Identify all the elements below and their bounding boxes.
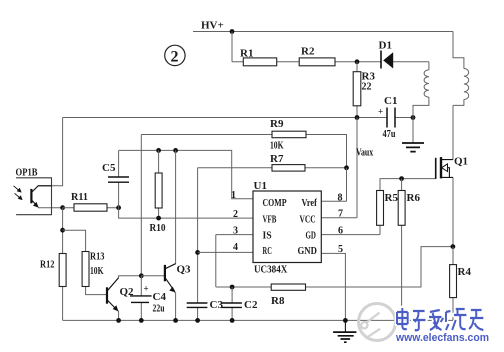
wire R8 row <box>216 247 453 287</box>
svg-text:C1: C1 <box>384 95 397 107</box>
svg-text:R9: R9 <box>270 118 284 130</box>
label R9 value 10K <box>270 140 284 152</box>
node OP1B emitter R11 junction <box>60 205 65 210</box>
pin number 8 <box>338 193 343 204</box>
pin label COMP <box>263 198 287 209</box>
wire Vref pin 8 <box>321 168 346 202</box>
svg-text:OP1B: OP1B <box>16 167 39 179</box>
node RC C3 junction <box>195 250 200 255</box>
label R2 <box>301 46 315 58</box>
svg-text:2: 2 <box>233 209 238 220</box>
pin number 2 <box>233 209 238 220</box>
transformer primary winding bottom feed <box>453 100 464 106</box>
resistor R13 <box>82 252 89 287</box>
wire R13 bottom lead to Q2 base <box>86 287 107 295</box>
label Q3 <box>177 264 192 276</box>
resistor R10 <box>155 173 162 208</box>
label R1 <box>240 48 253 60</box>
transformer aux winding coil <box>424 70 429 97</box>
pin label Vref <box>302 198 318 209</box>
wire R7 row <box>198 167 347 169</box>
transformer primary winding top feed <box>453 32 464 69</box>
wire C3 bottom lead <box>197 307 199 320</box>
resistor R4 <box>450 265 457 298</box>
transformer aux winding top feed <box>428 62 430 70</box>
wire R9 row <box>141 135 346 168</box>
svg-text:10K: 10K <box>90 265 104 277</box>
svg-text:7: 7 <box>338 209 343 220</box>
wire Vaux horizontal <box>63 117 413 119</box>
label R13 <box>90 251 105 263</box>
label R10 <box>150 222 166 234</box>
pin number 1 <box>231 190 236 201</box>
label U1 <box>254 180 267 192</box>
wire ground rail bottom <box>63 319 453 321</box>
node R10 bottom junction <box>156 216 161 221</box>
svg-text:Q2: Q2 <box>120 286 135 298</box>
node Vaux R3 junction <box>355 115 360 120</box>
label Q1 <box>454 156 468 168</box>
svg-text:1: 1 <box>231 190 236 201</box>
svg-text:6: 6 <box>338 226 343 237</box>
node C1 ground junction <box>411 115 416 120</box>
svg-text:C3: C3 <box>210 299 224 311</box>
label C1 value 47u <box>383 128 396 140</box>
resistor R9 <box>272 131 306 138</box>
node HV+ junction <box>230 29 235 34</box>
label R4 <box>458 266 472 278</box>
transistor Q1 MOSFET <box>436 157 453 179</box>
label UC384X <box>254 264 287 276</box>
svg-text:R2: R2 <box>301 46 315 58</box>
wire Q2 emitter drop <box>117 310 118 320</box>
wire HV+ drop to R1 <box>231 32 233 62</box>
wire COMP row to pin 1 <box>119 150 253 198</box>
label R7 <box>270 153 284 165</box>
diode D1 <box>381 51 393 69</box>
resistor R8 <box>271 284 305 290</box>
svg-text:COMP: COMP <box>263 198 287 209</box>
wire GND pin 5 <box>321 253 345 320</box>
svg-text:8: 8 <box>338 193 343 204</box>
wire VFB pin 2 row <box>119 208 253 218</box>
wire Q1 drain vertical <box>452 105 454 159</box>
wire Q3 collector vertical <box>165 150 175 268</box>
wire C1 ground lead <box>412 118 414 144</box>
pin label GND <box>298 246 317 257</box>
svg-text:VFB: VFB <box>263 215 277 226</box>
svg-text:+: + <box>378 107 383 117</box>
wire VCC pin 7 to Vaux <box>321 118 357 218</box>
label R11 <box>71 191 88 203</box>
capacitor C5 <box>108 177 129 182</box>
watermark text dianzifashaoyou <box>397 308 483 330</box>
label D1 <box>379 40 392 52</box>
wire R11 leads <box>63 207 119 209</box>
svg-text:22u: 22u <box>153 303 165 315</box>
label circled 2 figure number <box>165 45 185 65</box>
pin label VCC <box>300 215 316 226</box>
svg-text:Q3: Q3 <box>177 264 192 276</box>
label R5 <box>385 192 399 204</box>
wire C5 leads <box>118 150 120 207</box>
node rail C2 <box>230 318 235 323</box>
wire Q3 emitter drop <box>174 292 175 321</box>
node R10 top junction <box>156 148 161 153</box>
resistor R2 <box>299 58 335 66</box>
resistor R12 <box>59 254 66 287</box>
wire RC vertical from R7 <box>197 168 199 303</box>
wire RC pin 4 row <box>198 251 253 253</box>
wire Q1 source vertical <box>452 177 454 246</box>
node R11 C5 junction <box>116 205 121 210</box>
pin label VFB <box>263 215 277 226</box>
svg-text:Vref: Vref <box>302 198 318 209</box>
wire C4 leads <box>140 276 142 321</box>
resistor R1 <box>243 58 276 66</box>
svg-text:47u: 47u <box>383 128 396 140</box>
svg-text:R12: R12 <box>40 259 55 271</box>
svg-text:4: 4 <box>233 242 238 253</box>
wire left rail to OP1B collector <box>38 118 63 186</box>
watermark text glyph strokes <box>397 308 483 330</box>
svg-text:5: 5 <box>338 244 343 255</box>
pin number 3 <box>233 226 238 237</box>
svg-text:2: 2 <box>171 49 179 66</box>
node R4 sense junction <box>451 244 456 249</box>
node C2 IS junction <box>230 285 235 290</box>
capacitor C3 <box>187 303 208 307</box>
wire R6 bottom lead to rail <box>401 225 403 320</box>
label Q2 <box>120 286 135 298</box>
node rail C4 <box>139 318 144 323</box>
label R9 <box>270 118 284 130</box>
resistor R3 <box>353 72 361 106</box>
svg-text:R5: R5 <box>385 192 399 204</box>
watermark text www.elecfans.com <box>395 332 489 344</box>
svg-text:Q1: Q1 <box>454 156 468 168</box>
wire R3 leads <box>356 62 358 118</box>
label R3 <box>362 71 376 83</box>
svg-text:22: 22 <box>362 81 372 93</box>
pin label GD <box>306 231 316 242</box>
transistor Q3 <box>165 264 176 292</box>
wire Q2 collector to node <box>108 276 142 291</box>
label C4 value 22u <box>153 303 165 315</box>
svg-text:R10: R10 <box>150 222 166 234</box>
svg-text:R6: R6 <box>407 192 421 204</box>
node R6 gate junction <box>399 176 404 181</box>
wire R9 Q2 C4 vertical <box>140 135 142 276</box>
svg-text:U1: U1 <box>254 180 267 192</box>
node R13 tap junction <box>60 228 65 233</box>
svg-text:VCC: VCC <box>300 215 316 226</box>
label C5 <box>102 162 116 174</box>
label Vaux <box>356 147 374 159</box>
svg-text:R4: R4 <box>458 266 472 278</box>
label C1 <box>384 95 397 107</box>
pin label IS <box>263 231 273 242</box>
svg-text:R11: R11 <box>71 191 88 203</box>
label R3 value 22 <box>362 81 372 93</box>
resistor R11 <box>74 204 107 211</box>
wire GD pin 6 to R5 <box>321 225 380 234</box>
resistor R7 <box>272 165 305 172</box>
pin number 7 <box>338 209 343 220</box>
capacitor C1 <box>387 108 395 128</box>
wire Q3 base row <box>141 275 165 277</box>
svg-text:IS: IS <box>263 231 273 242</box>
svg-text:HV+: HV+ <box>201 20 224 32</box>
svg-text:RC: RC <box>263 246 272 257</box>
svg-text:Vaux: Vaux <box>356 147 374 159</box>
node rail C3 <box>195 318 200 323</box>
label HV+ <box>201 20 224 32</box>
node rail GND pin <box>343 318 348 323</box>
wire IS pin 3 row <box>216 234 253 236</box>
wire HV+ top rail <box>193 31 453 33</box>
transformer aux winding bottom feed <box>413 97 429 117</box>
label C3 <box>210 299 224 311</box>
svg-text:GND: GND <box>298 246 317 257</box>
node Q2 collector C4 Q3 base junction <box>139 273 144 278</box>
svg-text:R1: R1 <box>240 48 253 60</box>
svg-text:R8: R8 <box>271 295 285 307</box>
label R6 <box>407 192 421 204</box>
wire R13 top lead <box>63 230 86 251</box>
optocoupler OP1B phototransistor <box>31 186 51 207</box>
svg-text:GD: GD <box>306 231 316 242</box>
wire R4 leads <box>452 247 454 321</box>
wire R6 top lead <box>401 179 403 191</box>
label C4 plus <box>144 284 149 294</box>
svg-text:www.elecfans.com: www.elecfans.com <box>395 332 489 344</box>
svg-text:C5: C5 <box>102 162 116 174</box>
ground C1 <box>402 143 424 152</box>
label OP1B <box>16 167 39 179</box>
pin label RC <box>263 246 272 257</box>
wire gate row <box>380 179 436 191</box>
node rail Q2 emitter <box>116 318 121 323</box>
node rail Q3 emitter <box>173 318 178 323</box>
wire OP1B emitter row <box>38 207 63 209</box>
wire R1 row <box>232 61 429 63</box>
label R13 value 10K <box>90 265 104 277</box>
resistor R5 <box>377 191 384 226</box>
node R2 D1 R3 junction <box>355 59 360 64</box>
pin number 6 <box>338 226 343 237</box>
ground main rail <box>333 320 356 342</box>
label C1 plus <box>378 107 383 117</box>
optocoupler OP1B light arrows <box>14 186 22 200</box>
svg-text:C2: C2 <box>244 299 258 311</box>
capacitor C4 <box>130 296 152 303</box>
svg-text:R13: R13 <box>90 251 105 263</box>
label C2 <box>244 299 258 311</box>
wire C2 leads <box>231 287 233 320</box>
svg-text:UC384X: UC384X <box>254 264 287 276</box>
transformer primary winding coil <box>464 69 469 100</box>
wire R10 leads <box>158 150 160 218</box>
label R12 <box>40 259 55 271</box>
capacitor C2 <box>221 303 242 307</box>
pin number 5 <box>338 244 343 255</box>
svg-text:3: 3 <box>233 226 238 237</box>
svg-text:R7: R7 <box>270 153 284 165</box>
label R8 <box>271 295 285 307</box>
svg-text:+: + <box>144 284 149 294</box>
pin number 4 <box>233 242 238 253</box>
wire left rail lower <box>62 208 64 321</box>
svg-text:D1: D1 <box>379 40 392 52</box>
wire IS vertical <box>215 235 217 287</box>
transistor Q2 <box>107 278 119 311</box>
label C4 <box>153 291 167 303</box>
optocoupler OP1B box <box>16 178 51 215</box>
resistor R6 <box>398 191 405 226</box>
svg-text:C4: C4 <box>153 291 167 303</box>
node Vref R7 R9 junction <box>344 165 349 170</box>
svg-text:10K: 10K <box>270 140 284 152</box>
node Q3 collector junction <box>173 148 178 153</box>
watermark elecfans logo <box>359 304 396 341</box>
op-amp U1 box outline <box>253 191 321 263</box>
